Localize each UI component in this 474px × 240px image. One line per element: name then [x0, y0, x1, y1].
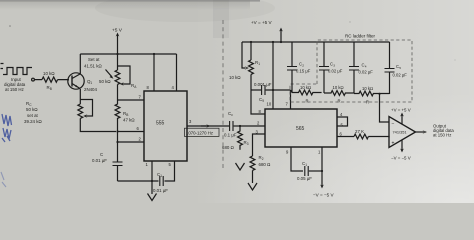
- +V = +5V supply arrow: [251, 20, 283, 43]
- svg-text:39.24 kΩ: 39.24 kΩ: [24, 119, 42, 124]
- svg-text:0.05 μF: 0.05 μF: [297, 176, 312, 181]
- svg-text:10 kΩ: 10 kΩ: [362, 86, 373, 91]
- coupling capacitor Cc 0.1uF: [224, 111, 240, 138]
- svg-text:4: 4: [365, 65, 367, 69]
- svg-text:565: 565: [296, 126, 305, 132]
- svg-text:10 kΩ: 10 kΩ: [333, 85, 344, 90]
- svg-text:C: C: [100, 152, 103, 157]
- capacitor C2 0.15uF: [287, 42, 311, 93]
- wire pin 8 to rail: [153, 54, 155, 91]
- ground (R3): [236, 163, 245, 170]
- svg-text:+V = +5 V: +V = +5 V: [391, 108, 411, 113]
- Set at 41.51 k annotation: [84, 57, 114, 79]
- svg-text:0.15 μF: 0.15 μF: [296, 69, 311, 74]
- output wire with arrow: [416, 130, 428, 134]
- svg-text:2N404: 2N404: [84, 87, 97, 92]
- 565 PLL U2: [265, 109, 337, 147]
- pin labels 565: [256, 102, 344, 155]
- svg-text:1: 1: [160, 174, 162, 178]
- svg-text:10 kΩ: 10 kΩ: [43, 71, 55, 76]
- svg-text:41.51 kΩ: 41.51 kΩ: [84, 64, 102, 69]
- wire pin 8 branch: [251, 90, 265, 114]
- capacitor C3 0.02uF: [319, 42, 343, 93]
- svg-text:50 kΩ: 50 kΩ: [99, 79, 111, 84]
- svg-text:at 150 Hz: at 150 Hz: [5, 87, 24, 92]
- svg-text:at 150 Hz: at 150 Hz: [433, 133, 451, 138]
- jumper pins 4-5: [337, 117, 348, 126]
- op-amp +V arrow: [391, 108, 411, 125]
- resistor RC 50k set at 39.24k with wiper loop: [24, 89, 116, 132]
- svg-text:RC ladder filter: RC ladder filter: [345, 34, 376, 39]
- input square wave symbol: [1, 64, 33, 75]
- wire pin1 to -V: [313, 147, 334, 198]
- resistor R2 680 ohm: [250, 155, 270, 183]
- RC ladder filter dashed box: [290, 40, 412, 102]
- svg-text:2: 2: [302, 64, 304, 68]
- svg-text:5: 5: [399, 66, 401, 70]
- ground (R2): [248, 183, 257, 190]
- resistor RB 10k (input base resistor): [42, 71, 58, 91]
- svg-text:3: 3: [247, 142, 249, 146]
- capacitor C4 0.02uF: [349, 42, 373, 94]
- wire collector to +5V rail: [79, 54, 81, 74]
- resistor 27K: [354, 129, 368, 139]
- op-amp -V arrow: [391, 140, 411, 161]
- wire input node to RB: [35, 79, 43, 81]
- capacitor C9 0.001uF (pin8 to +V): [251, 82, 291, 103]
- wire pin 4 to rail: [176, 54, 178, 91]
- wire pin 7 riser to ladder: [290, 90, 292, 109]
- wire RB to base: [58, 79, 69, 82]
- +5 V supply arrow: [112, 28, 123, 56]
- +V rail (right section): [242, 41, 390, 43]
- bottom wire C to pin1 node: [118, 180, 153, 182]
- svg-text:555: 555: [156, 121, 165, 127]
- svg-text:2: 2: [262, 157, 264, 161]
- svg-text:0.01 μF: 0.01 μF: [153, 188, 168, 193]
- svg-text:−: −: [392, 122, 395, 128]
- svg-text:1: 1: [258, 62, 260, 66]
- svg-text:R: R: [366, 100, 369, 105]
- svg-text:1: 1: [90, 81, 92, 85]
- capacitor C5 0.02uF: [385, 42, 408, 94]
- wire junction to 565 pin 2: [240, 125, 265, 127]
- svg-text:R: R: [338, 99, 341, 104]
- wire junction to pin 2: [117, 132, 119, 143]
- svg-text:0.01 μF: 0.01 μF: [92, 158, 107, 163]
- wire pin9 to C1: [291, 147, 303, 171]
- svg-text:680 Ω: 680 Ω: [222, 145, 234, 150]
- ladder output to comparator - input: [380, 94, 390, 122]
- svg-text:10 kΩ: 10 kΩ: [300, 85, 311, 90]
- op-amp 741/351 comparator: [389, 117, 416, 148]
- svg-text:−V = −5 V: −V = −5 V: [391, 156, 411, 161]
- svg-text:B: B: [50, 87, 52, 91]
- wire pin 3 output with arrow: [187, 124, 229, 128]
- svg-text:741/351: 741/351: [393, 130, 407, 135]
- svg-text:Set at: Set at: [88, 57, 100, 62]
- svg-text:+: +: [392, 141, 395, 147]
- svg-text:0.001 μF: 0.001 μF: [254, 82, 272, 87]
- output label: [433, 124, 454, 138]
- capacitor C1 0.01uF (pin5): [152, 161, 175, 193]
- svg-text:−V = −5 V: −V = −5 V: [313, 193, 334, 198]
- svg-text:47 kΩ: 47 kΩ: [123, 118, 135, 123]
- transistor Q1 2N404: [68, 73, 98, 92]
- svg-text:3: 3: [333, 64, 335, 68]
- svg-text:0.1 μF: 0.1 μF: [224, 133, 237, 138]
- svg-text:27 K: 27 K: [355, 129, 364, 134]
- wire pin 1 down: [151, 161, 153, 181]
- svg-text:R: R: [306, 99, 309, 104]
- svg-text:set at: set at: [27, 113, 39, 118]
- svg-text:9: 9: [262, 99, 264, 103]
- resistor R3 680 ohm: [222, 126, 249, 150]
- wire RB bottom junction to pin 6: [117, 122, 119, 132]
- 1070-1270 Hz label box: [185, 128, 220, 136]
- +5V rail: [80, 53, 176, 55]
- resistor RB 47k: [115, 100, 135, 123]
- svg-text:0.02 μF: 0.02 μF: [359, 70, 374, 75]
- wire pin 6 to 27K: [337, 136, 354, 138]
- svg-text:0.02 μF: 0.02 μF: [393, 73, 408, 78]
- ladder resistor Rc 10k: [354, 86, 390, 105]
- ladder resistor Ra 10k: [292, 85, 322, 104]
- potentiometer R1 10k: [229, 41, 260, 90]
- node: Cc / R3 / pin2 junction: [239, 125, 241, 127]
- svg-text:680 Ω: 680 Ω: [259, 162, 271, 167]
- svg-text:1: 1: [305, 163, 307, 167]
- wire 27K to comparator + input: [368, 137, 389, 138]
- pin labels 555: [137, 85, 193, 167]
- input digital data label: [4, 77, 26, 92]
- 555 timer U1: [144, 91, 187, 161]
- capacitor C 0.01uF: [92, 142, 123, 181]
- potentiometer RA 50k set at 41.51k: [99, 54, 137, 100]
- svg-text:10 kΩ: 10 kΩ: [229, 75, 241, 80]
- RC ladder filter title: [345, 34, 376, 39]
- svg-text:1070-1270 Hz: 1070-1270 Hz: [186, 131, 213, 136]
- ground (555): [148, 181, 157, 201]
- capacitor C1 0.05uF (565 timing): [297, 161, 322, 181]
- ladder resistor Rb 10k: [324, 85, 354, 104]
- blue margin scribble: [2, 114, 12, 142]
- wire +V down to pin 10: [272, 42, 274, 109]
- page divider dashed line: [222, 20, 224, 169]
- wire pot bottom to pin 7: [118, 99, 145, 101]
- input node terminal: [32, 78, 35, 81]
- svg-text:50 kΩ: 50 kΩ: [26, 107, 38, 112]
- svg-text:+V = +5 V: +V = +5 V: [251, 20, 272, 25]
- svg-text:+5 V: +5 V: [112, 28, 123, 34]
- svg-text:10: 10: [267, 102, 272, 107]
- wire pin 3 to R2: [253, 134, 266, 156]
- svg-text:0.02 μF: 0.02 μF: [328, 69, 343, 74]
- blue mark lower left: [1, 172, 6, 187]
